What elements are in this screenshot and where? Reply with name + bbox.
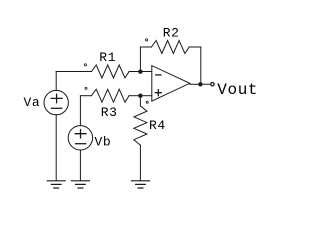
svg-text:R1: R1 xyxy=(99,50,116,65)
wire Vb to R3 xyxy=(80,95,91,97)
svg-text:Vout: Vout xyxy=(217,81,258,99)
wire to R2 left xyxy=(140,46,151,48)
op-amp U1 triangle xyxy=(152,66,190,102)
source Vb minus sign xyxy=(76,143,86,145)
output junction dot xyxy=(198,82,202,86)
wire R3 to node B xyxy=(129,95,140,97)
op-amp minus sign xyxy=(156,74,161,76)
wire node B down to R4 xyxy=(139,96,141,106)
wire R2 down to output xyxy=(200,47,202,84)
ground under Va xyxy=(47,181,65,188)
wire R4 to ground xyxy=(139,145,141,180)
resistor R2 xyxy=(151,41,189,54)
ground under Vb xyxy=(71,181,89,188)
pin marker R2 xyxy=(146,39,148,41)
pin marker R3 xyxy=(85,87,87,89)
svg-text:Va: Va xyxy=(24,95,41,110)
wire R2 right xyxy=(189,46,201,48)
wire Va bottom to ground xyxy=(55,115,57,181)
node B junction dot xyxy=(138,94,142,98)
wire node A up to R2 xyxy=(139,47,141,72)
svg-text:R3: R3 xyxy=(101,105,118,120)
source Vb circle xyxy=(68,126,92,150)
wire node B to op-amp plus input xyxy=(140,95,151,97)
wire Vb top riser xyxy=(79,96,81,126)
wire Va top riser xyxy=(55,72,57,91)
source Va plus sign xyxy=(51,94,62,102)
resistor R1 xyxy=(92,65,130,78)
source Va circle xyxy=(44,90,68,114)
pin marker R1 xyxy=(84,64,86,66)
wire Va to R1 xyxy=(56,71,91,73)
wire op-amp output to terminal xyxy=(190,83,210,85)
op-amp plus sign xyxy=(155,90,161,96)
wire Vb bottom to ground xyxy=(79,150,81,180)
svg-text:R2: R2 xyxy=(163,25,180,40)
svg-text:R4: R4 xyxy=(149,118,166,133)
source Va minus sign xyxy=(52,107,62,109)
wire R1 to node A xyxy=(129,71,140,73)
svg-text:Vb: Vb xyxy=(95,135,112,150)
resistor R4 xyxy=(134,106,147,145)
wire node A to op-amp minus input xyxy=(140,71,151,73)
resistor R3 xyxy=(92,89,130,102)
terminal Vout open circle xyxy=(211,83,214,86)
ground under R4 xyxy=(132,181,150,188)
source Vb plus sign xyxy=(75,130,86,138)
node A junction dot xyxy=(138,70,142,74)
pin marker op-amp xyxy=(146,101,148,103)
